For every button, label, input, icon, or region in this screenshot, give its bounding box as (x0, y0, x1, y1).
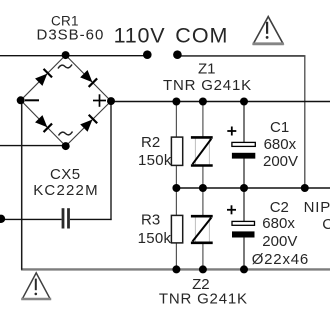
wire middle bus (176, 187, 330, 189)
svg-text:KC222M: KC222M (33, 182, 99, 199)
plus sign at bridge right vertex (93, 94, 106, 107)
node middle bus COM (301, 184, 309, 192)
node top vertex (62, 51, 70, 59)
wire CX5 horizontal left segment (0, 218, 62, 220)
wire R3 leads (175, 188, 177, 216)
svg-text:NIPPON: NIPPON (304, 199, 330, 216)
wire top bus (111, 101, 330, 103)
svg-text:200V: 200V (262, 233, 297, 250)
svg-text:TNR G241K: TNR G241K (163, 77, 252, 94)
node left edge CX5 wire (0, 215, 5, 223)
node bottom bus C2 (240, 265, 248, 273)
svg-text:200V: 200V (263, 153, 298, 170)
svg-text:Ø22x46: Ø22x46 (252, 251, 309, 268)
wire right vertical from bridge right vertex to CX5 wire (110, 101, 112, 220)
wire C1 leads (243, 102, 245, 144)
wire COM horizontal (177, 55, 305, 57)
svg-text:150k: 150k (138, 152, 172, 169)
svg-text:CHEMI-CON: CHEMI-CON (322, 216, 330, 233)
wire COM vertical down to middle bus (304, 55, 306, 188)
svg-text:150k: 150k (138, 230, 172, 247)
warning triangle bottom-left (21, 273, 51, 299)
resistor R3 (171, 215, 182, 243)
capacitor C1 (electrolytic) (227, 127, 255, 159)
svg-text:R3: R3 (141, 211, 160, 228)
node top bus R2 (172, 98, 180, 106)
bridge rectifier CR1 diamond edges (21, 55, 111, 146)
AC tilde mark below top vertex (58, 65, 72, 69)
svg-text:C1: C1 (270, 119, 289, 136)
varistor Z2 (191, 216, 213, 243)
diode D (top-left edge) pointing to top vertex (35, 68, 53, 86)
node middle bus Z (199, 184, 207, 192)
node left vertex (17, 96, 25, 104)
capacitor CX5 plates (63, 208, 69, 228)
node bottom vertex (62, 142, 70, 150)
diode D (bottom-left edge) pointing to bottom vertex (35, 115, 53, 133)
wire C2 leads (243, 188, 245, 222)
diode D (bottom-right edge) pointing to right vertex (80, 114, 98, 132)
wire Z1 leads (202, 102, 204, 138)
varistor Z1 (191, 137, 213, 165)
node bottom bus Z2 (199, 265, 207, 273)
node bottom bus R3 (172, 265, 180, 273)
AC tilde mark above bottom vertex (59, 132, 73, 136)
node middle bus R (172, 184, 180, 192)
warning triangle top (253, 17, 284, 44)
svg-text:Z1: Z1 (198, 60, 216, 77)
wire AC line bottom from left edge to bridge bottom vertex (0, 145, 66, 147)
wire left vertical from bridge left vertex to bottom bus (21, 100, 23, 269)
svg-text:D3SB-60: D3SB-60 (37, 27, 105, 44)
node top bus Z1 (199, 98, 207, 106)
node middle bus C (240, 184, 248, 192)
svg-text:680x: 680x (262, 215, 295, 232)
svg-text:R2: R2 (141, 134, 160, 151)
svg-text:680x: 680x (264, 136, 297, 153)
svg-text:CX5: CX5 (50, 166, 81, 183)
wire bottom bus (gray) (21, 268, 330, 270)
svg-text:110V: 110V (114, 23, 166, 47)
diode D (top-right edge) pointing to right vertex (80, 69, 98, 87)
minus sign at bridge left vertex (25, 99, 39, 101)
node COM terminal (173, 50, 182, 59)
svg-text:TNR G241K: TNR G241K (159, 291, 248, 308)
svg-text:C2: C2 (270, 199, 289, 216)
wire AC line top from left edge to 110V terminal (0, 55, 146, 57)
capacitor C2 (electrolytic) (227, 205, 255, 237)
resistor R2 (171, 137, 182, 165)
wire R2 leads (175, 102, 177, 138)
node 110V terminal (143, 50, 152, 59)
node right vertex (107, 97, 115, 105)
svg-text:COM: COM (175, 23, 228, 47)
wire CX5 horizontal right segment (70, 218, 112, 220)
node top bus C1 (240, 98, 248, 106)
wire Z2 leads (202, 188, 204, 216)
